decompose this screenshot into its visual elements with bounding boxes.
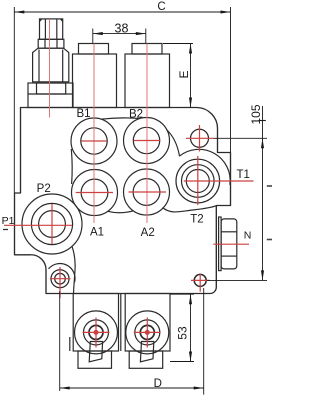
mount hole bottom-right [194,274,206,286]
port A1 [72,170,118,216]
P2 boss to bottom edge connector [72,246,75,293]
bottom cap 2 [125,294,170,369]
svg-text:105: 105 [249,104,263,124]
svg-text:T1: T1 [236,169,249,181]
dimension 105 [207,106,267,280]
A1 crosshair [76,192,113,194]
bottom-left hole crosshair [50,278,71,280]
svg-text:T2: T2 [190,214,203,226]
B2 crosshair [134,140,161,142]
svg-text:A2: A2 [141,227,155,239]
N center line [213,243,249,245]
spool 1 axis [93,44,95,224]
A2 crosshair [129,191,167,193]
bottom-right hole crosshair [191,279,210,281]
svg-text:P1: P1 [2,215,15,227]
B1 crosshair [81,140,106,142]
T1 boss arc [179,149,230,184]
svg-text:53: 53 [175,326,189,340]
P2 crosshair [4,224,72,226]
bottom cap 1 [70,294,121,369]
dimension 38 [93,29,146,44]
bridge B1-A1 left [70,149,73,184]
svg-text:E: E [177,70,191,78]
bridge B2 to T1 boss [167,130,180,157]
mount hole boss bottom-left [49,264,76,283]
port A2 [124,169,170,215]
svg-text:D: D [154,378,162,390]
mount hole top-right [191,129,209,147]
spool cap 1 top [73,44,117,108]
svg-text:38: 38 [115,21,129,35]
cropped fragment dash right edge 2 [267,239,272,241]
body outline [15,108,231,294]
T1 crosshair [184,180,254,182]
port P2 with boss [22,194,82,254]
cropped fragment dash right edge 1 [267,185,272,187]
svg-text:N: N [244,230,252,242]
P1 tick [3,229,8,231]
cap1 crosshair [83,331,110,333]
svg-text:B1: B1 [76,108,90,120]
mount hole bottom-left [51,270,69,288]
svg-text:A1: A1 [90,227,104,239]
port B2 [124,118,170,164]
spool 2 axis [146,44,148,224]
svg-text:C: C [157,1,165,13]
relief valve RV [28,19,73,108]
bridge B1-B2 top [101,118,140,119]
port T1 [176,159,220,203]
svg-text:P2: P2 [37,183,51,195]
dimension D [60,288,204,395]
spool cap 2 top [125,44,170,108]
plug N [219,217,237,271]
port B1 [71,118,117,164]
red center lines [50,19,148,223]
dimension 53 [170,294,194,361]
bridge A2 to right edge [163,206,217,212]
cap2 crosshair [134,331,161,333]
top-right hole crosshair [186,137,214,139]
bridge A1-A2 bottom [108,211,134,213]
relief valve axis [49,19,51,118]
svg-text:B2: B2 [129,109,143,121]
dimension C [14,7,230,193]
tick under 105 label [259,120,266,122]
dimension E [163,44,193,108]
